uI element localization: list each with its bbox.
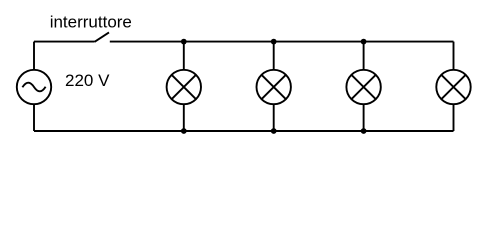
lamp L4 cross	[441, 75, 465, 99]
lamp L1 bottom wire	[183, 104, 185, 131]
lamp L4 bottom wire	[453, 104, 455, 131]
junction node top 1	[181, 39, 187, 45]
junction node bottom 3	[361, 128, 367, 134]
lamp L1 circle	[167, 70, 201, 104]
wire right vertical top	[453, 42, 455, 70]
junction node bottom 1	[181, 128, 187, 134]
junction node top 2	[271, 39, 277, 45]
junction node bottom 2	[271, 128, 277, 134]
lamp L3 bottom wire	[363, 104, 365, 131]
ac source V1 circle	[17, 70, 51, 104]
lamp L2 cross	[262, 75, 286, 99]
lamp L1 cross	[172, 75, 196, 99]
wire bottom horizontal	[34, 130, 454, 132]
wire left vertical bottom	[33, 104, 35, 131]
lamp L3 drop wire	[363, 42, 365, 70]
wire top-left segment	[34, 41, 95, 43]
wire top horizontal	[110, 41, 454, 43]
switch S1 blade	[95, 32, 109, 41]
wire left vertical top	[33, 42, 35, 70]
lamp L1 drop wire	[183, 42, 185, 70]
lamp L2 bottom wire	[273, 104, 275, 131]
junction node top 3	[361, 39, 367, 45]
lamp L3 circle	[346, 70, 380, 104]
lamp L3 cross	[351, 75, 375, 99]
lamp L4 circle	[436, 70, 470, 104]
svg-text:220 V: 220 V	[65, 71, 110, 90]
ac source V1 sine wave	[22, 83, 45, 92]
lamp L2 circle	[257, 70, 291, 104]
svg-text:interruttore: interruttore	[50, 13, 132, 32]
lamp L2 drop wire	[273, 42, 275, 70]
